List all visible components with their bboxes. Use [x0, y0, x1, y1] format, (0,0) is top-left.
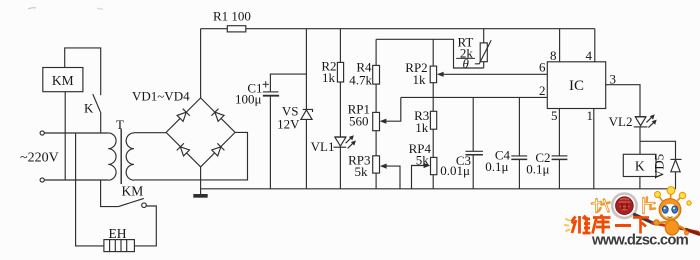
svg-text:12V: 12V: [277, 117, 300, 132]
svg-text:R1 100: R1 100: [213, 9, 251, 24]
terminal upper: [40, 131, 44, 135]
wire R4 branch top: [376, 39, 484, 68]
LED VL2: [634, 114, 657, 127]
svg-text:0.1μ: 0.1μ: [526, 162, 549, 177]
wire bridge top to rail: [200, 29, 202, 98]
svg-text:1k: 1k: [415, 120, 429, 135]
svg-text:K: K: [84, 101, 94, 116]
relay K box: [623, 154, 656, 176]
wire RP1 wiper: [380, 97, 401, 123]
transformer T core: [120, 129, 122, 184]
watermark glyph pian: [644, 198, 656, 214]
wire EH right to KM contact: [134, 206, 156, 246]
diode VD upper-right: [211, 109, 224, 122]
svg-text:4.7k: 4.7k: [349, 73, 372, 88]
wire K box to rail: [639, 177, 641, 189]
diode VD5: [670, 159, 681, 188]
potentiometer RP4: [431, 157, 437, 174]
svg-text:EH: EH: [109, 226, 127, 241]
wire KM contact left lead: [101, 180, 119, 207]
switch K blade: [93, 94, 101, 112]
wire VL2 to K relay: [639, 127, 641, 154]
LED VL1: [334, 135, 356, 148]
wire RP4 wiper: [412, 163, 431, 189]
svg-text:4: 4: [586, 48, 593, 63]
svg-text:3: 3: [610, 72, 617, 87]
capacitor C2 on pin5: [552, 109, 568, 189]
svg-text:5: 5: [551, 108, 558, 123]
wire VD5 branch: [640, 141, 676, 159]
svg-text:VD5: VD5: [652, 154, 667, 179]
svg-text:www.dzsc.com: www.dzsc.com: [591, 233, 689, 249]
capacitor C1: [263, 74, 307, 189]
svg-text:KM: KM: [122, 184, 144, 199]
contactor coil KM: [43, 68, 83, 92]
capacitor C4: [511, 97, 527, 188]
contact KM blade: [118, 198, 143, 206]
wire pin4: [594, 29, 596, 62]
diode VD upper-left: [177, 109, 190, 122]
terminal lower: [40, 178, 44, 182]
bridge diamond: [166, 98, 235, 167]
potentiometer RP3: [373, 156, 380, 173]
svg-text:1: 1: [587, 108, 594, 123]
svg-text:K: K: [635, 159, 645, 174]
svg-text:θ: θ: [463, 56, 470, 71]
svg-text:VL1: VL1: [311, 139, 335, 154]
wire secondary top to bridge: [134, 132, 166, 134]
wire 220V top: [44, 132, 108, 134]
wire RP3 wiper: [380, 164, 400, 189]
capacitor C3: [466, 97, 483, 188]
svg-text:VL2: VL2: [609, 114, 633, 129]
svg-text:2: 2: [539, 83, 546, 98]
wire pin3 to VL2: [606, 85, 640, 117]
watermark logo group: [565, 187, 700, 249]
zener VS: [301, 109, 313, 119]
svg-text:560: 560: [349, 114, 369, 129]
potentiometer RP1: [373, 112, 380, 130]
svg-text:5k: 5k: [416, 153, 430, 168]
wire IC pin2 line: [401, 96, 548, 98]
svg-text:0.1μ: 0.1μ: [485, 159, 508, 174]
svg-text:1k: 1k: [413, 72, 427, 87]
diode VD lower-right: [211, 143, 224, 156]
svg-text:~220V: ~220V: [20, 151, 59, 166]
op-amp IC U1 box: [547, 62, 605, 109]
wire 220V bottom: [44, 179, 108, 181]
ground: [194, 195, 207, 198]
svg-text:IC: IC: [569, 78, 584, 94]
transformer T primary winding: [108, 133, 116, 180]
wire K switch bottom lead: [100, 112, 102, 133]
wire IC pin6 to RP2 wiper: [437, 72, 548, 77]
thermistor RT: [475, 29, 491, 68]
wire R2 column: [339, 29, 341, 189]
resistor R2: [337, 62, 343, 82]
svg-text:VD1~VD4: VD1~VD4: [132, 89, 190, 104]
watermark red stick: [652, 223, 698, 232]
wire secondary bottom to bridge right: [134, 132, 248, 180]
heater EH: [104, 240, 134, 252]
watermark sparkles: [565, 219, 570, 231]
svg-text:T: T: [116, 117, 124, 132]
svg-text:KM: KM: [52, 73, 74, 88]
svg-text:1k: 1k: [322, 70, 336, 85]
potentiometer RP2: [430, 66, 436, 83]
wire pin1: [593, 109, 595, 189]
svg-text:0.01μ: 0.01μ: [440, 163, 470, 178]
svg-text:6: 6: [539, 60, 546, 75]
wire K branch top: [65, 48, 101, 95]
wire top rail: [201, 28, 595, 30]
wire KM coil to bottom: [64, 92, 66, 180]
contact KM fixed point: [142, 203, 147, 208]
wire RP2 column: [432, 39, 434, 189]
resistor R1: [227, 26, 246, 32]
wire pin8: [559, 29, 561, 62]
watermark mascot: [654, 187, 692, 235]
transformer T secondary winding: [126, 133, 134, 180]
resistor R4: [373, 65, 380, 84]
svg-text:100μ: 100μ: [235, 92, 262, 107]
resistor R3: [430, 111, 436, 129]
watermark magnifier handle: [635, 215, 655, 224]
svg-text:5k: 5k: [355, 164, 369, 179]
2k underline: [456, 57, 475, 59]
diode VD lower-left: [177, 143, 190, 156]
watermark glyph zhao: [592, 199, 610, 212]
wire R4 column: [375, 39, 377, 189]
watermark text weikuyixia: [572, 215, 650, 234]
svg-text:8: 8: [550, 48, 557, 63]
wire bottom ground rail: [200, 188, 675, 190]
wire EH feed: [76, 133, 104, 246]
wire bridge bottom to ground: [200, 167, 202, 195]
wire VS column: [305, 29, 307, 189]
watermark magnifier: [612, 194, 636, 218]
